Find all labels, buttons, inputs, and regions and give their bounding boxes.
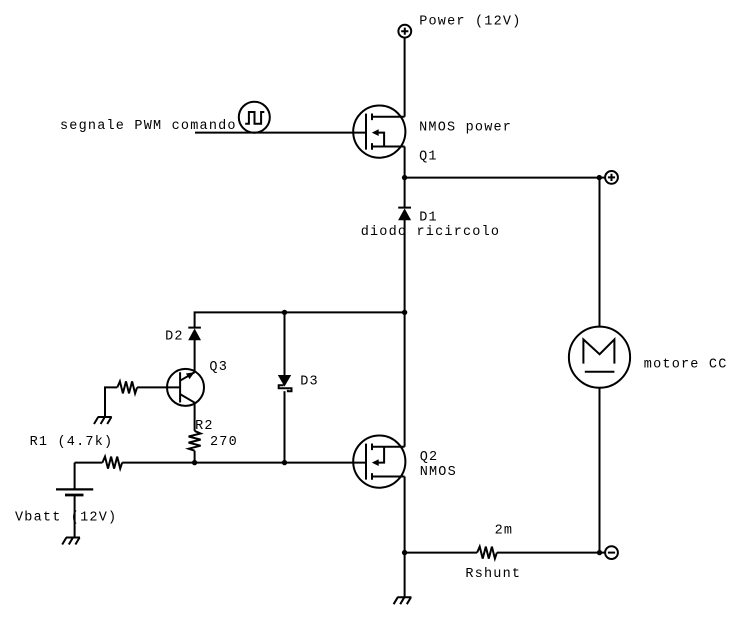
motor - terminal <box>600 546 618 559</box>
wire: Q1 source to node A <box>404 147 406 178</box>
svg-text:270: 270 <box>210 435 238 450</box>
junction node B <box>402 310 407 315</box>
svg-text:Rshunt: Rshunt <box>465 567 521 582</box>
svg-text:D2: D2 <box>165 330 184 345</box>
resistor R1 <box>102 457 122 469</box>
wire: D1 to node B <box>404 220 406 313</box>
wire: node A to motor branch <box>405 177 600 179</box>
wire: Q2 source to bottom node <box>404 477 406 553</box>
resistor (Q3 base) <box>117 381 137 393</box>
motor wire top <box>599 178 601 327</box>
svg-text:Q3: Q3 <box>209 360 228 375</box>
svg-text:motore CC: motore CC <box>644 358 728 373</box>
diode D1 <box>398 208 411 221</box>
svg-text:diodo ricircolo: diodo ricircolo <box>361 225 501 240</box>
wire: bottom node to ground <box>404 553 406 598</box>
junction bottom right <box>597 550 602 555</box>
junction D3 top <box>282 310 287 315</box>
diode D2 <box>188 328 201 341</box>
battery Vbatt <box>56 463 93 538</box>
wire: R2 to gate rail <box>194 451 196 463</box>
junction node A <box>402 175 407 180</box>
wire: bottom node to Rshunt <box>405 552 478 554</box>
wire: power terminal to Q1 drain <box>404 38 406 117</box>
svg-text:Vbatt (12V): Vbatt (12V) <box>15 511 117 526</box>
svg-text:D3: D3 <box>300 375 319 390</box>
wire: PWM source to Q1 gate <box>195 132 366 134</box>
resistor R2 <box>189 431 201 451</box>
svg-text:NMOS: NMOS <box>420 465 457 480</box>
svg-text:D1: D1 <box>419 211 438 226</box>
wire: R1 to Q2 gate <box>122 462 366 464</box>
wire: node B to D2 branch corner <box>195 312 405 327</box>
svg-text:R1 (4.7k): R1 (4.7k) <box>30 435 114 450</box>
gate rail: Vbatt corner to R1 <box>75 462 103 464</box>
motor M1 (motore CC) <box>569 327 630 388</box>
wire: base resistor to ground <box>105 387 117 417</box>
svg-text:segnale PWM comando: segnale PWM comando <box>60 119 237 134</box>
junction at motor branch <box>597 175 602 180</box>
resistor Rshunt <box>477 547 497 559</box>
transistor Q2 (NMOS) <box>353 436 405 488</box>
junction R2 bottom <box>192 460 197 465</box>
junction D3 bottom <box>282 460 287 465</box>
pulse source (PWM) <box>239 102 270 133</box>
svg-text:Power (12V): Power (12V) <box>419 15 521 30</box>
wire: Rshunt to motor - terminal <box>497 552 600 554</box>
svg-text:NMOS power: NMOS power <box>419 120 512 135</box>
wire: Q3 collector to R2 <box>194 403 196 431</box>
wire: D2 to Q3 emitter <box>194 340 196 372</box>
power terminal (+) <box>398 25 411 38</box>
ground (main) <box>394 597 412 604</box>
svg-text:R2: R2 <box>195 419 214 434</box>
transistor Q3 <box>167 369 204 406</box>
svg-text:2m: 2m <box>495 524 514 539</box>
wire: node A to D1 <box>404 178 406 208</box>
ground (base) <box>94 417 112 424</box>
svg-text:Q2: Q2 <box>420 450 439 465</box>
ground (Vbatt) <box>62 538 80 545</box>
transistor Q1 (NMOS power) <box>353 106 405 158</box>
wire: base resistor to Q3 base <box>137 386 180 388</box>
wire: node B to Q2 drain <box>404 312 406 446</box>
svg-text:Q1: Q1 <box>419 150 438 165</box>
junction bottom left <box>402 550 407 555</box>
zener diode D3 <box>278 312 292 462</box>
motor wire bottom <box>599 388 601 553</box>
motor + terminal <box>600 171 618 184</box>
